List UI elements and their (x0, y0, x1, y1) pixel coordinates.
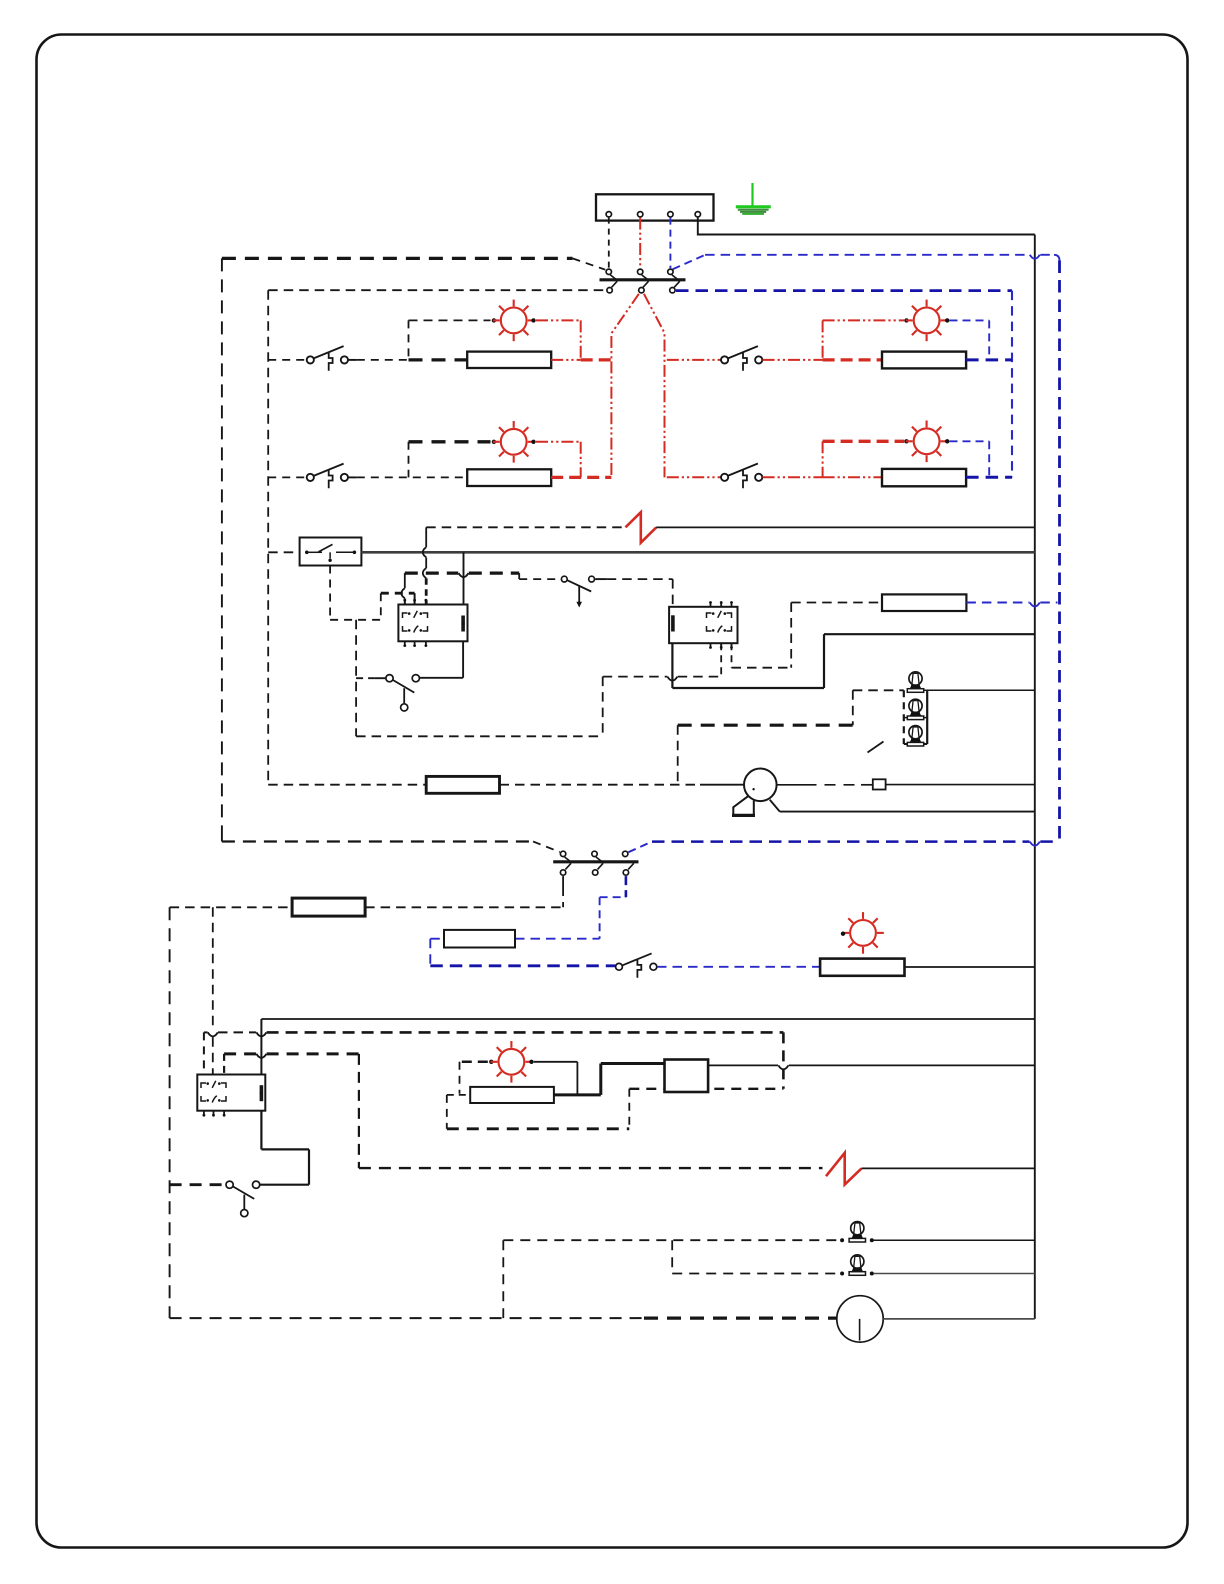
connector box (873, 779, 886, 789)
relay K2 (669, 607, 737, 643)
resistor R5 (882, 594, 966, 611)
wire heavy dashed to outer left (170, 1183, 226, 1186)
wire relay K3 to toggle B (260, 1111, 262, 1150)
wire heavy dashed to break B2 (359, 1167, 823, 1169)
wire heavy dashed row (405, 571, 458, 574)
bulb B3 (907, 726, 923, 746)
wire blue (950, 440, 990, 442)
wire relay K2 pin to resistor R5 (731, 643, 733, 668)
wire ignition lower-1 dashed to inner loop (268, 289, 606, 291)
wire (602, 677, 604, 737)
wire red (536, 319, 581, 321)
pin 4 (695, 212, 700, 217)
node (945, 318, 949, 322)
wire dashed to relay K2 bottom pin (603, 676, 668, 678)
wire dashed loop below (447, 1094, 470, 1096)
pin 2 (638, 212, 643, 217)
push-button switch S5 (721, 474, 728, 481)
break symbol red B1 (626, 512, 657, 543)
wire to lamp (409, 319, 491, 321)
resistor R9 (820, 959, 904, 976)
connector block J1 (596, 194, 714, 220)
wire red (822, 441, 824, 477)
wire (408, 442, 410, 478)
switch lever mark (868, 742, 884, 753)
pin 3 (668, 212, 673, 217)
wire dashed horn feed (268, 784, 426, 786)
wire pin4 to right bus (698, 218, 1035, 235)
node (529, 1060, 533, 1064)
wire (677, 725, 679, 784)
wire dashed row with resistor R7 (365, 906, 563, 908)
wire red heavy (551, 476, 611, 479)
wire bank lower1 down (562, 876, 564, 888)
wire (595, 578, 607, 580)
wire (852, 690, 854, 725)
lamp L2 (493, 421, 535, 463)
node (492, 318, 496, 322)
wire vertical relay K1 pin1 (404, 573, 406, 588)
wire heavy dashed right side drop (782, 1032, 785, 1088)
relay K2 coil bar (671, 615, 675, 631)
wire heavy (409, 358, 468, 361)
bulb B4 (849, 1222, 865, 1242)
node (841, 932, 845, 936)
relay K3 coil bar (260, 1085, 264, 1101)
wire blue bank lower3 to resistor R8 (625, 876, 628, 897)
wire dashed drop from pin2 path (355, 620, 357, 737)
node (945, 439, 949, 443)
wire blue (950, 319, 990, 321)
lamp L3 (906, 300, 948, 342)
node (840, 1238, 844, 1242)
wire horn output (777, 784, 806, 786)
wire switch box bottom path (329, 566, 331, 620)
bulb B2 (907, 699, 923, 719)
push-button switch S4 (721, 356, 728, 363)
bulb B5 (849, 1255, 865, 1275)
wire (534, 1061, 578, 1063)
break symbol red B2 (826, 1153, 862, 1185)
wire blue (988, 320, 990, 360)
wire heavy blue to switch S10 (430, 964, 615, 967)
wire (268, 476, 306, 478)
wire pin1 to ignition switch (608, 218, 610, 269)
wire dashed row into relay K3 pin1 (204, 1031, 208, 1033)
node (904, 439, 908, 443)
wire (348, 476, 357, 478)
ground (751, 183, 753, 206)
resistor R7 (292, 898, 365, 916)
wire blue heavy (966, 358, 1012, 361)
wire red (763, 476, 823, 478)
relay K1 coil bar (461, 616, 465, 632)
wire (357, 476, 467, 478)
wire red heavy (823, 440, 905, 443)
wire solid to right bus (862, 1167, 1035, 1169)
resistor R2 (467, 469, 551, 486)
wire inner dashed loop left side (267, 290, 269, 785)
wire (607, 578, 673, 580)
lamp L5 (842, 912, 884, 954)
wire (672, 579, 674, 607)
wire dashed to bulb B5 (672, 1273, 839, 1275)
blue wire ignition to right blue bus (673, 255, 706, 269)
wire heavy dashed to motor (644, 1316, 837, 1319)
wire solid top row (261, 1018, 1034, 1020)
lamp L1 (493, 300, 535, 342)
wire red (580, 442, 582, 478)
wire relay K1 to toggle A (462, 641, 464, 678)
wire dashed lamp left drop (459, 1062, 461, 1094)
wire solid gray bus to relay K1 top right (463, 552, 465, 604)
push-button switch S10 (616, 963, 623, 970)
wire blue to bus (966, 602, 1029, 604)
motor M1 (837, 1296, 883, 1342)
wire red (823, 319, 905, 321)
wire solid flasher to right bus (708, 1064, 778, 1066)
pin 1 (606, 212, 611, 217)
wire (924, 689, 1035, 691)
wire heavy blue from ignition lower-3 (676, 289, 1012, 292)
resistor R6 (426, 776, 499, 793)
wire dashed from inner loop to switch box (268, 551, 299, 553)
relay K3 (197, 1075, 265, 1111)
wire red tent right branch (644, 294, 665, 478)
wire red (580, 320, 582, 360)
wire (853, 689, 904, 691)
node (531, 318, 535, 322)
ignition switch S1 (606, 269, 611, 274)
toggle switch S7 (561, 576, 567, 582)
wire blue (988, 441, 990, 477)
wire (700, 784, 744, 786)
wire dashed to bulb B4 (503, 1239, 840, 1241)
wire dashed branch up (502, 1240, 504, 1318)
wire (886, 784, 1035, 786)
switch box S6 (300, 538, 362, 566)
wire red (667, 476, 721, 478)
toggle switch S11 (226, 1181, 233, 1188)
node (840, 1272, 844, 1276)
node (870, 1238, 874, 1242)
wire red heavy (581, 358, 612, 361)
wire dashed lamp L6 feed (462, 1061, 489, 1064)
wire (356, 677, 374, 679)
wire heavy dashed feed to bulb cluster (678, 724, 853, 727)
node (531, 440, 535, 444)
toggle switch S8 (386, 675, 393, 682)
wire blue bank to right (628, 842, 652, 853)
lamp L4 (906, 421, 948, 463)
wire blue heavy (966, 476, 1012, 479)
wire horn second terminal (770, 800, 780, 812)
wire (874, 1239, 1035, 1241)
node (489, 1060, 493, 1064)
node (904, 318, 908, 322)
wire red heavy (823, 358, 882, 361)
wire pin2 to ignition switch red (639, 218, 641, 269)
wire dashed from outer loop to lower bank (221, 838, 223, 842)
wire (874, 1273, 1035, 1275)
wire solid to right bus (905, 966, 1035, 968)
wire blue to resistor R9 (657, 966, 820, 968)
wire dashed drop left outer (169, 907, 171, 1318)
push-button switch S2 (307, 356, 314, 363)
wire thick to flasher box (554, 1093, 601, 1096)
resistor R10 (470, 1087, 554, 1103)
light switch S9 (560, 851, 565, 856)
wire dashed bottom of small loop (356, 735, 603, 737)
node (870, 1272, 874, 1276)
wire dashed into relay K1 pin2 (381, 592, 415, 595)
wire (357, 359, 409, 361)
wire heavy dashed feed to ignition (222, 257, 573, 260)
wire red tent left branch (611, 294, 639, 478)
wire red (822, 320, 824, 360)
lamp L6 (491, 1041, 533, 1083)
wire (268, 359, 306, 361)
bulb B1 (907, 672, 923, 692)
resistor R1 (467, 352, 551, 368)
resistor R4 (882, 469, 966, 486)
wire (374, 677, 386, 679)
wire red (536, 441, 581, 443)
resistor R8 (444, 930, 515, 948)
resistor R3 (882, 352, 966, 369)
wire red (551, 359, 581, 361)
gray bus wire (361, 551, 1034, 554)
wire red (823, 476, 882, 478)
relay K1 (398, 605, 467, 642)
wire (500, 784, 701, 786)
push-button switch S3 (307, 474, 314, 481)
wire (408, 320, 410, 360)
horn H1 (744, 769, 777, 802)
wire heavy to lamp (409, 440, 491, 443)
wire heavy dashed from relay K3 pin3 (223, 1054, 225, 1075)
node (492, 440, 496, 444)
wire outer dashed loop left side (221, 258, 223, 838)
blue bus vertical wire (1058, 261, 1061, 842)
wire (348, 359, 357, 361)
wire pin3 to ignition switch blue (669, 218, 671, 269)
wire dashed bottom rail (170, 1317, 644, 1319)
wire blue left of R8 (430, 938, 444, 940)
wire relay K2 ground path (671, 643, 673, 688)
wire solid from break to right bus (656, 526, 1035, 528)
wire vertical into relay K1 pin3 (425, 527, 427, 547)
wire dashed drop to relay K3 pin2 (212, 907, 214, 1027)
right bus vertical wire (1034, 235, 1036, 1319)
wire red (667, 359, 721, 361)
bulb cluster box (903, 690, 905, 744)
wire dashed branch down (671, 1240, 673, 1273)
wire red (763, 359, 823, 361)
wire dashed to fuse break (426, 526, 625, 528)
flasher box U1 (665, 1060, 709, 1093)
wire blue drop to lamp rows (1011, 291, 1013, 478)
wire motor to right bus (883, 1318, 1035, 1320)
